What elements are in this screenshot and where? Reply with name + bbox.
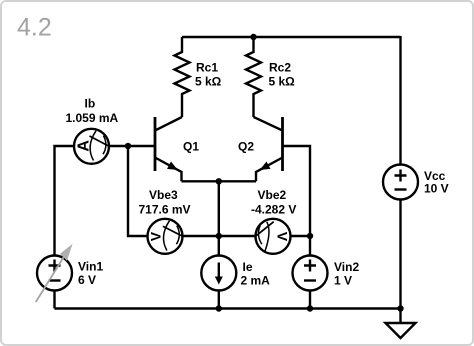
svg-text:Vbe3: Vbe3 (149, 188, 178, 202)
svg-text:5 kΩ: 5 kΩ (195, 75, 222, 89)
ground (386, 323, 416, 338)
svg-text:717.6 mV: 717.6 mV (139, 203, 191, 217)
node Ie bottom junction (216, 305, 222, 311)
svg-text:Rc2: Rc2 (269, 61, 291, 75)
svg-text:Q1: Q1 (183, 139, 199, 153)
svg-text:Vin2: Vin2 (334, 260, 359, 274)
transistor Q1 (155, 117, 182, 181)
svg-text:-4.282 V: -4.282 V (251, 203, 296, 217)
wire Q1 base to ammeter (109, 145, 156, 147)
transistor Q2 (254, 117, 283, 181)
svg-text:6 V: 6 V (78, 273, 96, 287)
wire right rail lower (Vcc to ground) (399, 200, 401, 324)
wire base junction down to Vbe3 (128, 146, 148, 236)
svg-text:1 V: 1 V (334, 274, 352, 288)
node top rail / Rc2 junction (250, 34, 256, 40)
wire Ie bottom (218, 291, 220, 309)
wire right rail upper (top rail to Vcc) (399, 36, 401, 165)
voltmeter Vbe3 (148, 219, 183, 254)
svg-text:Vbe2: Vbe2 (258, 188, 287, 202)
wire emitters to tail (182, 180, 257, 182)
wire bottom rail (55, 307, 401, 309)
resistor Rc1 (175, 37, 190, 117)
node Q1 base junction (125, 143, 131, 149)
wire top rail (182, 36, 401, 38)
node bottom rail / ground junction (397, 305, 403, 311)
svg-text:Vin1: Vin1 (78, 260, 103, 274)
node Vbe2 right junction (307, 233, 313, 239)
voltmeter Vbe2 (256, 219, 291, 254)
svg-text:V: V (274, 232, 290, 242)
wire Vbe3 to Vbe2 (183, 235, 256, 237)
svg-text:V: V (148, 231, 164, 241)
voltage source Vin1 (36, 244, 73, 302)
wire Vin2 bottom (309, 291, 311, 309)
wire Vbe2 to node (291, 235, 311, 237)
node Vbe meters junction (216, 233, 222, 239)
node emitters junction (216, 178, 222, 184)
wire ammeter left to Vin1 (55, 146, 74, 256)
wire Q2 base to right column (283, 146, 311, 256)
svg-text:5 kΩ: 5 kΩ (269, 75, 296, 89)
svg-text:Q2: Q2 (238, 139, 254, 153)
wire tail down to Ie (218, 181, 220, 255)
svg-text:Rc1: Rc1 (196, 61, 218, 75)
svg-text:2 mA: 2 mA (241, 274, 271, 288)
voltage source Vin2 (293, 256, 328, 291)
current source Ie (201, 256, 236, 291)
svg-text:Ib: Ib (85, 97, 96, 111)
ammeter Ib (74, 129, 109, 164)
wire Vin1 bottom (53, 291, 55, 309)
svg-text:Ie: Ie (243, 260, 253, 274)
svg-text:4.2: 4.2 (17, 14, 52, 42)
voltage source Vcc (383, 165, 418, 200)
svg-text:10 V: 10 V (424, 182, 449, 196)
resistor Rc2 (246, 37, 261, 117)
node Vin2 bottom junction (307, 305, 313, 311)
svg-text:1.059 mA: 1.059 mA (66, 111, 119, 125)
